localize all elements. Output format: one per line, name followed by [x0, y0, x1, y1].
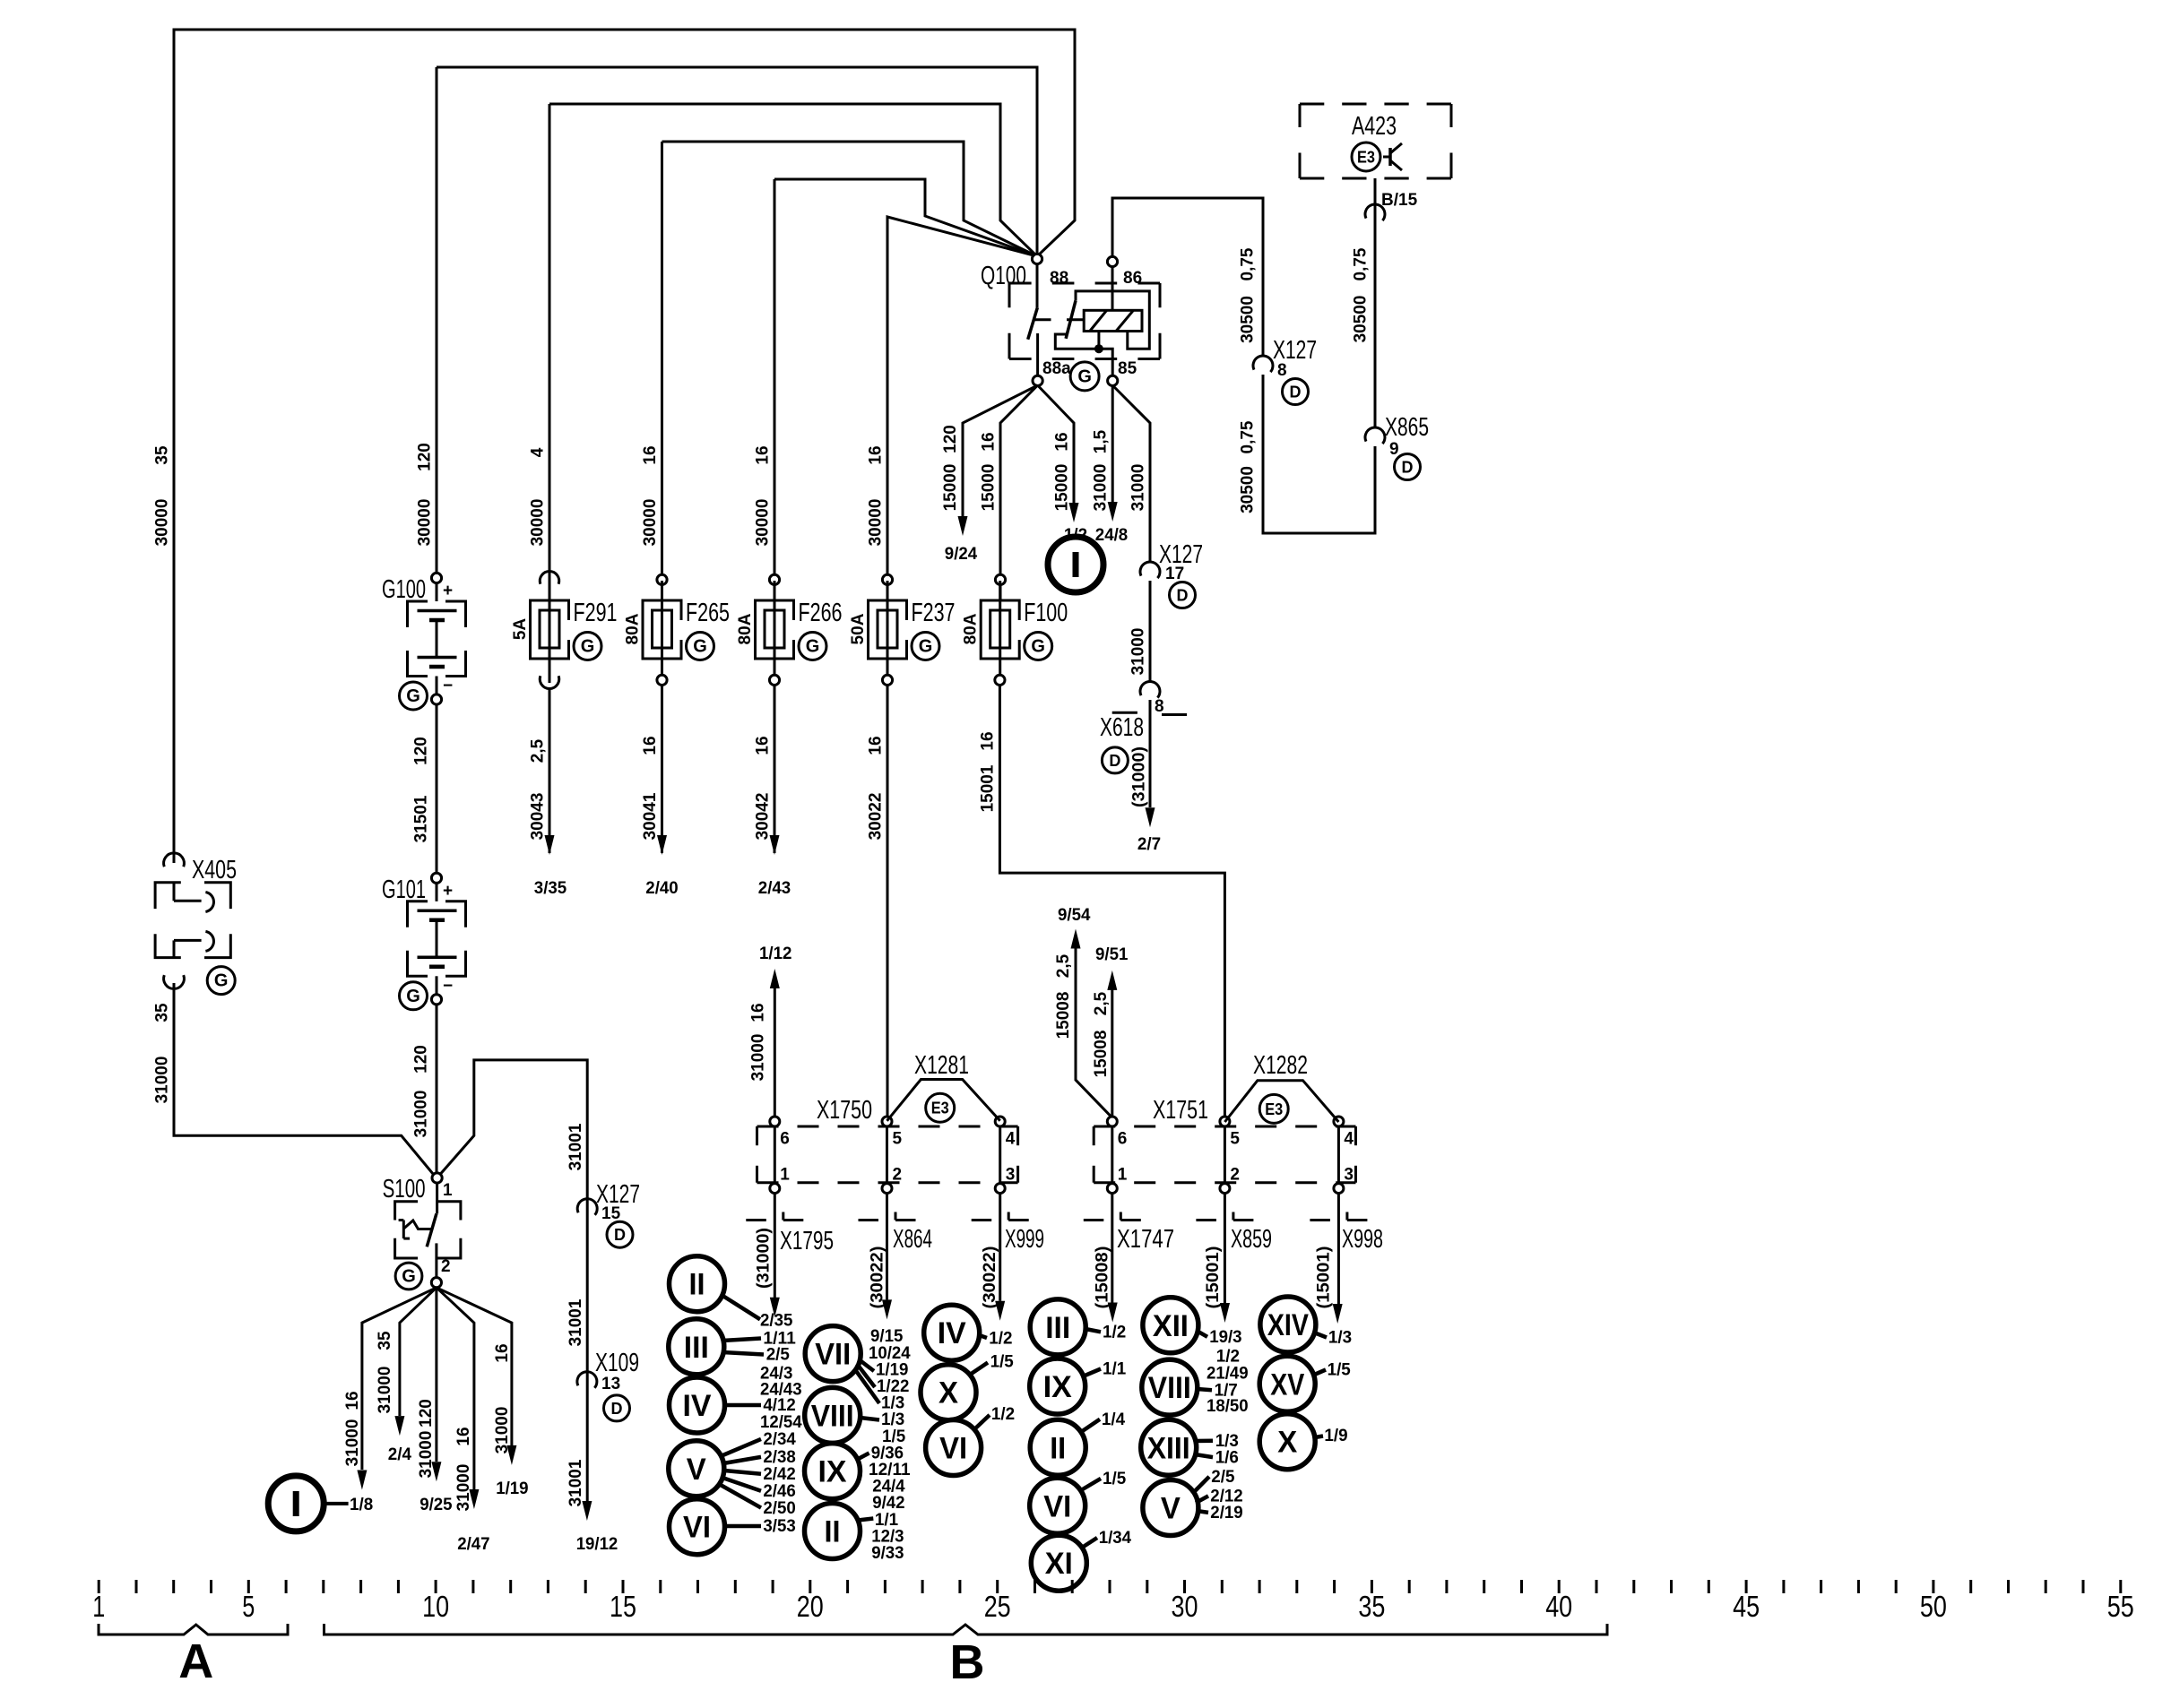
svg-text:35: 35 — [376, 1331, 394, 1350]
arrow to 9/54 — [1071, 929, 1081, 949]
X618 dash right — [1162, 713, 1187, 716]
svg-text:X1750: X1750 — [817, 1096, 872, 1125]
svg-text:16: 16 — [867, 445, 886, 464]
svg-text:2/40: 2/40 — [645, 879, 678, 898]
wire 31000/16 S100 to 1/8 — [362, 1288, 437, 1470]
wire 30022/16 below F237 to X1750 pin 5 — [887, 686, 889, 1118]
relay linkage over coil — [1076, 291, 1149, 349]
current-track circle I (bottom left) — [268, 1476, 324, 1531]
wire 31000/16 up-arrow to 1/12 — [774, 988, 776, 1117]
wire 31000/35 X405 to S100 — [174, 983, 434, 1175]
svg-text:+: + — [443, 882, 453, 901]
wire 31001 S100 to X127 pin 15 — [440, 1060, 587, 1505]
node F266 bottom — [769, 675, 779, 685]
code circle E3 at X1282 — [1259, 1094, 1288, 1123]
leader VIII to 1/7 — [1198, 1389, 1213, 1390]
svg-text:2/34: 2/34 — [763, 1430, 796, 1449]
svg-text:31000: 31000 — [1129, 464, 1148, 512]
arrow X864 col — [882, 1299, 892, 1319]
node F100 top — [995, 574, 1005, 584]
wire (15001) X998 col — [1337, 1194, 1340, 1304]
svg-text:15: 15 — [610, 1590, 636, 1623]
leader VI to 1/2 — [973, 1415, 990, 1430]
svg-text:III: III — [684, 1331, 709, 1365]
svg-text:16: 16 — [980, 432, 999, 451]
svg-text:2/50: 2/50 — [763, 1499, 795, 1518]
code circle D at X865 — [1395, 454, 1421, 480]
current-track circle I (ignition) — [1048, 537, 1103, 592]
svg-text:0,75: 0,75 — [1239, 420, 1258, 453]
svg-text:9/33: 9/33 — [871, 1544, 904, 1563]
svg-text:35: 35 — [153, 445, 172, 465]
svg-text:31001: 31001 — [567, 1459, 585, 1506]
svg-text:G: G — [581, 637, 595, 657]
connector arc above fuse F291 — [540, 571, 558, 583]
track circle II (c4) — [1030, 1419, 1085, 1475]
code circle D at X127/15 — [607, 1221, 633, 1247]
svg-text:80A: 80A — [962, 613, 981, 644]
switch S100 thermal element — [399, 1219, 404, 1221]
leader III to 2/5 — [722, 1352, 764, 1355]
svg-text:30000: 30000 — [641, 499, 660, 547]
separator connector dashes — [746, 1219, 766, 1221]
svg-text:30041: 30041 — [641, 792, 660, 840]
track circle XIV (c6) — [1260, 1297, 1316, 1352]
relay junction dot — [1094, 344, 1103, 353]
node S100 pin 2 — [431, 1278, 441, 1288]
svg-text:13: 13 — [601, 1375, 620, 1393]
svg-text:E3: E3 — [1265, 1100, 1283, 1118]
svg-text:2/5: 2/5 — [766, 1346, 791, 1365]
leader VII to 1/19 — [859, 1359, 874, 1371]
svg-text:IV: IV — [938, 1316, 966, 1350]
transistor icon in A423 — [1383, 156, 1390, 159]
svg-text:(15008): (15008) — [1094, 1246, 1112, 1309]
track circle III (c1) — [669, 1319, 724, 1375]
wire 31501/120 G100 to G101 — [436, 704, 438, 873]
svg-text:30000: 30000 — [529, 499, 548, 547]
svg-text:16: 16 — [454, 1427, 473, 1445]
lead from I to 1/8 — [324, 1502, 349, 1505]
svg-text:B: B — [950, 1635, 985, 1689]
arrow to 9/25 — [431, 1462, 441, 1481]
connector X1751 — [1094, 1126, 1355, 1128]
svg-text:4: 4 — [529, 447, 548, 457]
svg-text:17: 17 — [1165, 565, 1184, 583]
wire 30500 X127/8 to relay 86 — [1112, 198, 1263, 357]
fuse F100 — [999, 581, 1001, 683]
leader V to 2/19 — [1197, 1511, 1208, 1513]
leader V to 2/5 — [1192, 1477, 1209, 1494]
track circle XIII (c5) — [1141, 1419, 1197, 1475]
svg-text:3/35: 3/35 — [534, 879, 567, 898]
svg-text:2,5: 2,5 — [1054, 953, 1073, 978]
svg-text:19/12: 19/12 — [576, 1535, 618, 1554]
svg-text:15000: 15000 — [980, 464, 999, 512]
track circle X (c3) — [921, 1365, 976, 1420]
svg-text:21/49: 21/49 — [1207, 1365, 1249, 1384]
wire (31000) X618 to 2/7 — [1149, 700, 1152, 807]
svg-text:B/15: B/15 — [1381, 191, 1418, 210]
svg-text:VII: VII — [815, 1338, 851, 1372]
svg-text:16: 16 — [343, 1391, 362, 1410]
svg-text:1/2: 1/2 — [989, 1330, 1012, 1349]
svg-text:31001: 31001 — [567, 1123, 585, 1170]
track circle X (c6) — [1259, 1414, 1315, 1470]
svg-text:31001: 31001 — [567, 1298, 585, 1346]
svg-text:E3: E3 — [931, 1100, 949, 1117]
svg-text:(30022): (30022) — [869, 1246, 887, 1309]
svg-text:2/19: 2/19 — [1210, 1504, 1242, 1523]
relay coil bottom lead — [1097, 332, 1100, 349]
svg-text:50A: 50A — [849, 613, 868, 644]
track circle IX (c2) — [805, 1444, 861, 1499]
wire 31000/120 G101 to S100 — [436, 1005, 438, 1175]
svg-text:D: D — [1109, 752, 1120, 770]
svg-text:X405: X405 — [192, 856, 237, 884]
track circle XV (c6) — [1259, 1356, 1315, 1411]
svg-text:86: 86 — [1123, 269, 1142, 288]
svg-text:25: 25 — [984, 1590, 1011, 1623]
wire 31000 85 to X127 pin 17 — [1112, 385, 1150, 562]
svg-text:II: II — [1050, 1431, 1066, 1465]
connector X127 pin 8 arc — [1253, 356, 1273, 372]
svg-text:G: G — [214, 971, 229, 991]
track circle XI (c4) — [1031, 1535, 1086, 1591]
svg-text:16: 16 — [1053, 432, 1072, 451]
node F265 top — [657, 574, 667, 584]
wire 30000/35 battery feed from X405 to relay pin 88 (L1) — [174, 30, 1075, 863]
fuse F265 — [661, 581, 663, 683]
arrow to 1/8 — [357, 1471, 367, 1490]
svg-text:F100: F100 — [1024, 599, 1068, 627]
code circle D at X618 — [1102, 747, 1128, 773]
wire F265 drop — [661, 142, 663, 575]
svg-text:55: 55 — [2107, 1590, 2134, 1623]
svg-text:G: G — [919, 637, 933, 657]
wire 31000/1,5 85 to 24/8 — [1111, 385, 1114, 502]
svg-text:XIII: XIII — [1147, 1431, 1190, 1465]
svg-text:G: G — [806, 637, 820, 657]
battery G100 — [431, 573, 441, 582]
wire (30022) X864 to 9/15 — [886, 1194, 888, 1299]
svg-text:VI: VI — [683, 1511, 711, 1545]
switch S100 body — [395, 1202, 419, 1221]
svg-text:IX: IX — [1043, 1370, 1072, 1404]
code circle D at X127/17 — [1170, 582, 1196, 608]
svg-text:E3: E3 — [1357, 149, 1375, 167]
relay second blade — [1066, 300, 1076, 338]
node Q100 pin 88 — [1032, 254, 1042, 263]
svg-text:4: 4 — [1344, 1129, 1354, 1148]
fuse F266 — [774, 581, 776, 683]
wire 30000/16 F266 to relay 88 (L5) — [774, 179, 1037, 256]
svg-text:II: II — [689, 1268, 705, 1302]
svg-text:G: G — [406, 686, 420, 706]
svg-text:G100: G100 — [382, 575, 426, 604]
svg-text:31000: 31000 — [412, 1091, 431, 1138]
track circle V (c1) — [669, 1441, 724, 1497]
svg-text:1: 1 — [780, 1166, 790, 1185]
svg-text:X1282: X1282 — [1253, 1051, 1308, 1080]
svg-text:31000: 31000 — [749, 1034, 768, 1082]
svg-text:30500: 30500 — [1239, 466, 1258, 513]
svg-text:1: 1 — [443, 1181, 453, 1200]
arrow to 1/2 — [1069, 503, 1079, 522]
svg-text:1: 1 — [1118, 1166, 1128, 1185]
svg-text:1/5: 1/5 — [1328, 1361, 1352, 1380]
svg-text:18/50: 18/50 — [1207, 1397, 1249, 1416]
svg-text:X999: X999 — [1005, 1225, 1044, 1254]
svg-text:16: 16 — [493, 1343, 512, 1362]
node F100 bottom — [995, 675, 1005, 685]
svg-text:15000: 15000 — [941, 464, 960, 512]
svg-text:35: 35 — [1358, 1590, 1385, 1623]
svg-text:1/3: 1/3 — [1328, 1329, 1352, 1348]
svg-text:2: 2 — [893, 1166, 903, 1185]
fuse F291 — [549, 581, 551, 683]
svg-text:X859: X859 — [1231, 1225, 1272, 1254]
connector arc below X405 — [164, 975, 185, 988]
arrow to 9/51 — [1107, 970, 1117, 990]
arrow to 9/24 — [958, 516, 968, 536]
node Q100 pin 86 — [1107, 256, 1117, 266]
connector X127 pin 17 arc — [1140, 562, 1160, 578]
svg-text:1/6: 1/6 — [1215, 1448, 1239, 1467]
svg-text:1/2: 1/2 — [991, 1405, 1015, 1424]
svg-text:0,75: 0,75 — [1239, 247, 1258, 280]
arrow to 24/8 — [1108, 502, 1118, 522]
svg-text:30000: 30000 — [153, 499, 172, 547]
svg-text:XI: XI — [1045, 1547, 1073, 1581]
svg-text:9: 9 — [1389, 440, 1399, 459]
wire 15001/16 F100 to X1751 pin 5 — [999, 686, 1224, 1118]
svg-text:30043: 30043 — [529, 793, 548, 841]
svg-text:15008: 15008 — [1092, 1031, 1111, 1078]
svg-text:1/5: 1/5 — [990, 1353, 1015, 1372]
svg-text:2/5: 2/5 — [1211, 1468, 1235, 1487]
connector X865 pin 9 arc — [1365, 427, 1385, 444]
svg-text:30042: 30042 — [754, 793, 773, 841]
code circle D at X109/13 — [604, 1395, 630, 1421]
svg-text:1/5: 1/5 — [1103, 1470, 1127, 1488]
svg-text:II: II — [825, 1515, 841, 1549]
leader II to 1/4 — [1081, 1419, 1100, 1432]
node F237 top — [882, 574, 892, 584]
arrow X999 col — [995, 1301, 1005, 1321]
leader V to 2/46 — [722, 1478, 761, 1491]
svg-text:16: 16 — [979, 731, 998, 750]
svg-text:XII: XII — [1153, 1309, 1189, 1343]
ground circle G at X405 — [207, 967, 235, 995]
svg-text:XV: XV — [1270, 1367, 1304, 1402]
leader IX to 1/1 — [1083, 1369, 1101, 1377]
arrow 31001 to 19/12 — [582, 1501, 592, 1521]
svg-text:VI: VI — [1043, 1489, 1071, 1523]
arrow to 2/7 — [1146, 807, 1155, 827]
svg-text:30: 30 — [1172, 1590, 1198, 1623]
wire (15001) X859 col — [1224, 1194, 1226, 1303]
leader V to 2/50 — [719, 1484, 761, 1508]
svg-text:120: 120 — [416, 443, 435, 471]
section bracket B — [324, 1624, 1608, 1635]
svg-text:X864: X864 — [893, 1225, 932, 1254]
wire 30041/16 below F265 — [661, 686, 663, 854]
track circle IV (c1) — [670, 1377, 725, 1433]
svg-text:31000: 31000 — [343, 1419, 362, 1467]
svg-text:16: 16 — [867, 736, 886, 755]
svg-text:16: 16 — [641, 445, 660, 464]
svg-text:A423: A423 — [1352, 112, 1397, 141]
leader XIV to 1/3 — [1314, 1333, 1327, 1338]
track circle VIII (c2) — [805, 1387, 861, 1443]
svg-text:G: G — [1031, 637, 1045, 657]
svg-text:2,5: 2,5 — [529, 738, 548, 763]
node S100 pin 1 — [432, 1173, 442, 1183]
svg-text:2/38: 2/38 — [763, 1448, 795, 1467]
connector X127 pin 15 arc — [577, 1199, 597, 1215]
svg-text:20: 20 — [797, 1590, 824, 1623]
svg-text:35: 35 — [153, 1003, 172, 1022]
wire 86 into relay coil — [1111, 267, 1114, 311]
connector arc B/15 — [1365, 204, 1385, 220]
arrow to 2/47 — [469, 1489, 479, 1509]
svg-text:D: D — [614, 1226, 626, 1244]
svg-text:IV: IV — [683, 1389, 712, 1423]
node Q100 pin 88a — [1033, 375, 1042, 385]
wire F291 drop — [549, 104, 551, 600]
wire 31000 X127/17 to X618 — [1149, 581, 1152, 682]
svg-text:X: X — [938, 1376, 958, 1410]
connector X405 pin 2 frame — [155, 934, 181, 957]
track circle V (c5) — [1143, 1480, 1198, 1536]
relay dot to pin 85 — [1099, 349, 1112, 375]
svg-text:G: G — [402, 1267, 416, 1287]
svg-text:X1751: X1751 — [1153, 1096, 1208, 1125]
leader VI to 3/53 — [725, 1524, 762, 1529]
wire 30000/16 F237 to relay 88 (L6) — [887, 217, 1037, 580]
wire 30500/0,75 A423 to X865 — [1374, 178, 1377, 428]
connector arc above X405 — [164, 853, 185, 867]
svg-text:16: 16 — [749, 1003, 768, 1022]
svg-text:31000: 31000 — [1129, 628, 1148, 676]
svg-text:31000: 31000 — [376, 1367, 394, 1414]
connector X1750 — [757, 1126, 1018, 1128]
svg-text:XIV: XIV — [1267, 1308, 1309, 1342]
node F265 bottom — [657, 675, 667, 685]
svg-text:5: 5 — [1230, 1129, 1240, 1148]
wire 31000/16 S100 to 1/19 — [437, 1288, 512, 1445]
leader XI to 1/34 — [1082, 1538, 1097, 1548]
arrow to 1/12 — [770, 969, 780, 988]
relay contact blade 88-88a — [1028, 307, 1038, 340]
switch S100 contact blade — [427, 1213, 437, 1246]
svg-text:X865: X865 — [1385, 413, 1429, 442]
svg-text:III: III — [1045, 1311, 1070, 1345]
svg-text:5A: 5A — [511, 618, 530, 641]
svg-text:2,5: 2,5 — [1092, 991, 1111, 1015]
svg-text:1/12: 1/12 — [759, 945, 791, 963]
arrow X1747 col — [1108, 1303, 1118, 1323]
leader III to 1/2 — [1085, 1329, 1101, 1332]
svg-text:9/51: 9/51 — [1095, 945, 1129, 964]
grid ruler ticks — [98, 1580, 100, 1593]
svg-text:(30022): (30022) — [981, 1246, 999, 1309]
svg-text:2/42: 2/42 — [763, 1465, 795, 1484]
track circle VI (c1) — [670, 1499, 725, 1555]
svg-text:31000: 31000 — [493, 1407, 512, 1454]
relay coil — [1084, 310, 1142, 331]
svg-text:15000: 15000 — [1053, 464, 1072, 512]
leader II to 1/1 — [859, 1519, 873, 1521]
svg-text:88a: 88a — [1042, 359, 1071, 378]
switch S100 leads — [436, 1183, 438, 1213]
svg-text:15001: 15001 — [979, 764, 998, 812]
wire 31000/35 S100 to 2/4 — [400, 1288, 437, 1416]
svg-text:2: 2 — [441, 1257, 451, 1276]
svg-text:F291: F291 — [574, 599, 618, 627]
leader VII to 1/3 — [854, 1368, 879, 1403]
wire 15000/120 to 9/24 — [963, 385, 1038, 516]
svg-text:4: 4 — [1006, 1129, 1016, 1148]
svg-text:16: 16 — [754, 736, 773, 755]
svg-text:31000: 31000 — [454, 1464, 473, 1512]
svg-text:2/35: 2/35 — [760, 1312, 793, 1331]
battery G101 — [431, 873, 441, 883]
leader IX to 9/36 — [858, 1454, 869, 1460]
svg-text:30000: 30000 — [867, 499, 886, 547]
svg-text:2/46: 2/46 — [763, 1482, 795, 1501]
svg-text:3: 3 — [1006, 1166, 1016, 1185]
svg-text:X998: X998 — [1342, 1225, 1383, 1254]
wire 88 into relay — [1036, 264, 1039, 307]
wire 15000/16 to fuse F100 — [1000, 385, 1038, 574]
leader VII to 1/22 — [857, 1364, 875, 1387]
code circle E3 at X1281 — [926, 1093, 955, 1122]
connector X1282 jumper — [1224, 1081, 1338, 1122]
leader XIII to 1/3 — [1195, 1438, 1213, 1443]
connector X405 pin 2 contact — [173, 940, 176, 957]
svg-text:2/47: 2/47 — [457, 1535, 489, 1554]
svg-text:A: A — [178, 1635, 213, 1688]
svg-text:Q100: Q100 — [981, 262, 1026, 290]
track circle III (c4) — [1030, 1299, 1085, 1355]
relay second fixed tick — [1067, 318, 1083, 321]
svg-text:3: 3 — [1344, 1166, 1354, 1185]
relay Q100 dashed body — [1009, 282, 1160, 285]
svg-text:D: D — [1290, 384, 1302, 401]
svg-text:40: 40 — [1545, 1590, 1572, 1623]
svg-text:24/8: 24/8 — [1095, 526, 1128, 545]
wire 30000/120 G100 to relay 88 (L2) — [437, 67, 1037, 256]
svg-text:X1747: X1747 — [1117, 1225, 1174, 1254]
wire (15008) X1747 col — [1111, 1194, 1113, 1303]
ground circle G at S100 — [395, 1263, 422, 1290]
svg-text:1/4: 1/4 — [1102, 1410, 1126, 1429]
track circle VI (c4) — [1030, 1478, 1085, 1533]
wire 31000/16 S100 to 2/47 — [437, 1288, 474, 1489]
svg-text:1/1: 1/1 — [1103, 1360, 1127, 1379]
svg-text:8: 8 — [1277, 361, 1287, 380]
code circle E3 at A423 — [1352, 142, 1380, 171]
svg-text:1/8: 1/8 — [350, 1496, 373, 1514]
leader X to 1/5 — [970, 1363, 988, 1376]
track circle XII (c5) — [1143, 1298, 1198, 1353]
track circle IX (c4) — [1030, 1359, 1085, 1414]
svg-text:19/3: 19/3 — [1209, 1328, 1241, 1347]
section bracket A — [99, 1624, 288, 1635]
svg-text:G101: G101 — [382, 876, 426, 904]
